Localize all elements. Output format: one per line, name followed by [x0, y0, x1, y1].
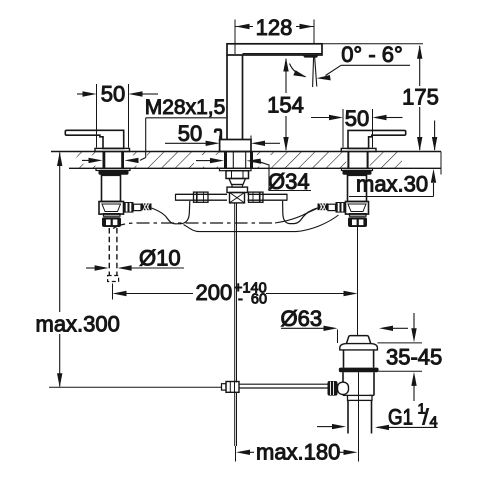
- slab bottom line: [69, 167, 441, 169]
- drain dark ring: [339, 368, 379, 373]
- tee taper: [229, 179, 246, 185]
- right valve locknut dark: [343, 170, 372, 175]
- alternate hose dash-dot: [113, 223, 275, 229]
- clevis: [226, 382, 239, 393]
- svg-text:4: 4: [430, 415, 438, 431]
- right valve flange under slab: [342, 168, 373, 170]
- spout riser pipe: [226, 55, 228, 140]
- horizontal lever rod: [239, 383, 328, 385]
- drain tailpipe: [347, 400, 349, 433]
- aerator: [303, 55, 319, 58]
- 128 dimension: [234, 20, 236, 55]
- pop-up pull rod hook: [215, 130, 221, 140]
- white band left arrows: [84, 155, 148, 165]
- hole left valve: [101, 150, 126, 170]
- svg-text:M28x1,5: M28x1,5: [145, 96, 226, 119]
- left hose nut rings: [124, 202, 134, 213]
- drain upper body: [343, 350, 345, 368]
- svg-text:200: 200: [196, 280, 233, 305]
- max.300 dimension: [59, 153, 61, 313]
- left hose curve: [152, 201, 190, 224]
- spout base 50 dimension: [219, 136, 221, 151]
- countertop slab hatching: [60, 150, 441, 170]
- hole center spout: [224, 150, 254, 170]
- left lower plate: [104, 214, 121, 217]
- diameter 10 dimension: [86, 267, 95, 269]
- svg-text:Ø63: Ø63: [281, 306, 323, 331]
- svg-text:Ø10: Ø10: [139, 245, 181, 270]
- left hose braid: [141, 203, 152, 210]
- 0-6 text and underline: [341, 64, 410, 66]
- left valve body column: [102, 175, 121, 201]
- ball housing: [338, 382, 349, 394]
- left valve lever and neck: [65, 130, 123, 148]
- right hose curve: [283, 201, 318, 224]
- 175 dimension: [322, 43, 423, 45]
- tee right pipe: [248, 193, 288, 195]
- right valve base: [341, 148, 376, 151]
- M28 arrow left side: [82, 159, 92, 161]
- right lower plate: [350, 214, 367, 217]
- 35-45 dimension: [377, 342, 422, 344]
- max.180 dimension: [358, 372, 360, 461]
- diameter 63 dimension: [337, 330, 339, 344]
- dashed rod end cap: [108, 276, 119, 282]
- right hose braid: [318, 203, 329, 210]
- svg-text:0° - 6°: 0° - 6°: [341, 42, 403, 67]
- left valve elbow: [99, 202, 124, 215]
- rod below clevis: [234, 392, 236, 446]
- svg-text:50: 50: [178, 121, 202, 146]
- svg-text:35-45: 35-45: [386, 344, 442, 369]
- angle arc right / leader: [326, 65, 342, 75]
- left hose hex: [134, 204, 142, 210]
- center slab arrows / diameter 34 leader: [196, 160, 210, 162]
- left valve base: [95, 148, 130, 151]
- tee check valve block with X: [230, 193, 245, 203]
- left valve locknut dark: [99, 170, 129, 175]
- drain flange: [340, 344, 378, 350]
- angle arc left: [290, 64, 306, 77]
- right hose hex: [328, 204, 336, 210]
- spout underside line: [243, 53, 323, 55]
- right valve lever and neck: [348, 130, 406, 148]
- hole right valve: [346, 150, 370, 170]
- slab top line: [51, 151, 441, 153]
- svg-text:50: 50: [101, 82, 125, 107]
- 200 +140/-60 dimension: [112, 284, 114, 300]
- right valve body column: [348, 175, 367, 201]
- svg-text:/: /: [423, 405, 430, 430]
- left dashed inlet pipes: [108, 228, 110, 275]
- 0-6 degree tilt lines: [313, 57, 314, 88]
- svg-text:50: 50: [345, 106, 369, 131]
- right valve elbow: [346, 202, 369, 215]
- pop-up rod vertical: [234, 203, 236, 383]
- left valve shank through slab: [103, 152, 106, 169]
- tee top block: [227, 187, 248, 192]
- svg-text:154: 154: [267, 93, 304, 118]
- svg-text:- 60: - 60: [238, 292, 267, 308]
- drain lower body: [342, 372, 344, 395]
- left valve flange under slab: [96, 168, 130, 170]
- white band center arrows: [194, 155, 272, 167]
- right 50 dimension: [342, 109, 344, 148]
- lower solid hose sweep: [184, 215, 339, 232]
- knurled knob: [328, 381, 338, 396]
- spout shank through slab: [224, 152, 227, 169]
- drain plug cap: [347, 336, 371, 344]
- reference line: [49, 386, 222, 388]
- left 50 dimension: [96, 84, 98, 148]
- svg-text:175: 175: [402, 84, 439, 109]
- tee neck: [232, 185, 243, 188]
- right lower nut: [348, 217, 367, 227]
- svg-text:max.300: max.300: [36, 311, 120, 336]
- drain step band: [348, 395, 373, 400]
- spout horizontal bar: [227, 44, 322, 55]
- right valve shank through slab: [347, 152, 349, 169]
- svg-text:128: 128: [256, 15, 293, 40]
- spout base: [220, 140, 251, 152]
- spout tee flange: [220, 168, 252, 170]
- tee nut: [226, 171, 249, 179]
- svg-text:max.180: max.180: [256, 439, 340, 464]
- svg-text:G1: G1: [388, 405, 413, 430]
- tee left pipe: [176, 193, 228, 195]
- max.30 dimension: [434, 121, 436, 151]
- left lower nut: [102, 217, 121, 227]
- right hose nut rings: [336, 202, 346, 213]
- 154 dimension: [285, 59, 287, 93]
- slab right edge: [440, 152, 442, 175]
- svg-text:Ø34: Ø34: [268, 169, 310, 194]
- centerline valve to drain: [357, 227, 359, 335]
